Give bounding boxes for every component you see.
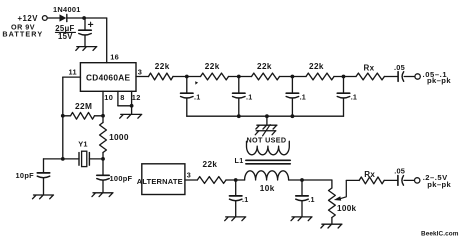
potentiometer R9 100k [329,180,357,224]
svg-text:15V: 15V [58,32,73,41]
wire pin 3 [136,76,149,78]
node [101,157,105,161]
resistor R6 22k [306,62,334,80]
svg-text:12: 12 [132,93,141,102]
svg-text:22k: 22k [257,62,272,71]
wire ladder ground bus [187,115,344,117]
wire pin 11 [63,77,81,159]
label +12V OR 9V BATTERY [2,14,43,39]
svg-text:8: 8 [120,93,124,102]
resistor R4 22k [201,62,229,80]
capacitor C3 100pF [97,174,133,192]
resistor R8 22k [197,160,226,183]
node [291,75,295,79]
svg-text:1000: 1000 [109,132,129,142]
pin 3 label [138,67,142,76]
svg-text:22M: 22M [75,101,92,111]
svg-text:10pF: 10pF [16,171,35,180]
wire [384,179,398,181]
wire [106,18,108,63]
wire pin 12 [131,91,133,106]
svg-text:NOT USED: NOT USED [247,135,287,144]
svg-text:22k: 22k [205,62,220,71]
resistor R1 22M [71,101,95,119]
capacitor C10 .1 [296,180,315,217]
capacitor C11 .05 [394,166,414,185]
svg-text:.1: .1 [300,92,306,101]
svg-text:.1: .1 [351,92,357,101]
pin 11 label [69,67,77,76]
node pins 8-12 [130,104,134,108]
svg-text:.05: .05 [394,166,405,175]
node [291,114,295,118]
svg-text:BATTERY: BATTERY [2,29,43,38]
ground [225,217,246,221]
terminal output 1 [415,74,420,79]
wire [102,159,104,175]
resistor R3 22k [149,62,174,80]
wire [289,179,332,181]
transformer core [246,160,290,164]
svg-text:10: 10 [104,93,113,102]
svg-text:+12V: +12V [18,14,39,23]
node [61,114,65,118]
ground [120,114,142,118]
wire [266,116,268,125]
node [265,114,269,118]
wire [229,76,252,78]
svg-text:Y1: Y1 [78,140,88,149]
ground [321,224,342,228]
terminal output 2 [415,178,420,183]
svg-text:100k: 100k [337,204,357,213]
wire [131,106,133,114]
svg-text:22k: 22k [155,62,170,71]
resistor R7 Rx [356,63,384,80]
wire [384,76,398,78]
svg-text:BeekIC.com: BeekIC.com [421,231,459,238]
node [101,114,105,118]
svg-text:1N4001: 1N4001 [53,5,81,14]
svg-text:100pF: 100pF [110,174,133,183]
wire [334,76,356,78]
svg-text:.1: .1 [242,195,248,204]
svg-text:3: 3 [187,170,191,179]
svg-text:L1: L1 [235,156,244,165]
wire pin 8 [118,91,132,106]
node [185,75,189,79]
node [237,114,241,118]
svg-text:22k: 22k [309,62,324,71]
node [300,178,304,182]
ground [256,125,277,129]
block ALTERNATE [137,164,185,195]
wire [44,159,63,173]
svg-text:16: 16 [110,53,119,62]
diode D1 1N4001 [53,5,81,22]
wire [67,17,107,19]
wiper wire [334,180,359,200]
pin 10 label [104,93,113,102]
svg-text:.1: .1 [246,92,252,101]
svg-text:.1: .1 [308,195,314,204]
svg-text:10k: 10k [260,184,275,193]
op-amp U1 CD4060AE [80,63,136,92]
pin 8 label [120,93,124,102]
wire [102,116,104,159]
resistor R10 Rx [359,170,384,184]
wire [226,179,245,181]
node [234,178,238,182]
resistor R2 1000 [100,123,129,153]
capacitor C7 .1 [337,77,357,117]
capacitor C6 .1 [286,77,306,117]
label NOT USED [247,135,287,144]
capacitor C2 10pF [16,171,50,195]
label output 1 [423,70,452,85]
pin 12 label [132,93,141,102]
wire [280,76,307,78]
capacitor C4 .1 [181,77,201,117]
artifact mark [195,81,198,84]
label L1 [235,156,244,165]
svg-text:22k: 22k [203,160,218,169]
wire [63,115,103,117]
svg-text:11: 11 [69,67,77,76]
capacitor C5 .1 [233,77,253,117]
svg-text:Rx: Rx [364,63,375,72]
label output 2 [423,173,452,189]
node [342,75,346,79]
watermark [421,231,459,238]
capacitor C9 .1 [230,180,249,217]
svg-text:pk–pk: pk–pk [427,180,451,189]
node [61,157,65,161]
svg-text:ALTERNATE: ALTERNATE [137,177,183,186]
terminal +12V input [42,16,47,21]
capacitor C8 .05 [394,63,415,82]
ground unused winding [255,125,276,136]
svg-text:3: 3 [138,67,142,76]
svg-text:pk–pk: pk–pk [427,76,451,85]
pin 3 label [187,170,191,179]
node [237,75,241,79]
wire [47,17,59,19]
wire pin 10 [102,91,104,116]
crystal Y1 [63,140,103,167]
ground [291,217,312,221]
pin 16 label [110,53,119,62]
ground [92,193,113,197]
wire [173,76,201,78]
svg-text:CD4060AE: CD4060AE [86,73,131,83]
ground [76,47,97,51]
ground [33,195,54,199]
svg-text:.05: .05 [394,63,405,72]
inductor L1 10k winding [245,171,289,193]
resistor R5 22k [252,62,280,80]
svg-text:.1: .1 [194,92,200,101]
node supply junction [82,16,86,20]
wire [185,179,197,181]
inductor unused winding [247,141,290,155]
capacitor C1 25uF 15V [55,18,93,46]
